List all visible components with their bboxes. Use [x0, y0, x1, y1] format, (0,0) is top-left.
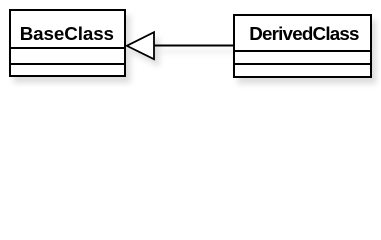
svg-text:DerivedClass: DerivedClass — [249, 23, 359, 44]
class box BaseClass — [10, 10, 125, 76]
DerivedClass attribute compartment divider — [233, 50, 372, 52]
svg-text:BaseClass: BaseClass — [20, 23, 114, 44]
generalization line — [153, 45, 234, 47]
BaseClass method compartment divider — [9, 63, 126, 65]
DerivedClass method compartment divider — [233, 63, 372, 65]
BaseClass attribute compartment divider — [9, 47, 126, 49]
hollow triangle arrowhead — [127, 32, 154, 59]
class box DerivedClass — [234, 15, 371, 77]
